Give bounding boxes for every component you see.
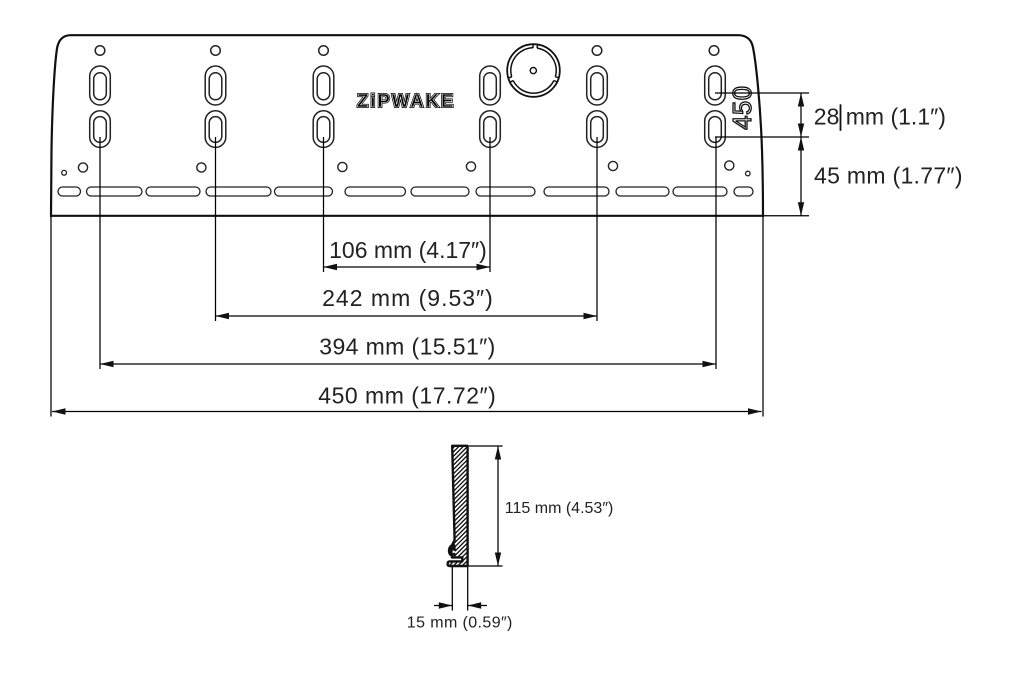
extension line column 4 — [489, 137, 491, 272]
extension line section right — [467, 567, 469, 611]
vent slot 3 — [146, 187, 200, 196]
arrowhead 242 right — [584, 313, 598, 319]
arrowhead 106 left — [324, 264, 338, 270]
dimension line 28/45 mm vertical — [800, 93, 802, 216]
dimension line 115 mm — [497, 446, 499, 566]
vent slot 12 — [734, 187, 753, 196]
lower hole A3 — [338, 162, 347, 171]
mounting slot pair column 4 — [480, 66, 501, 147]
dimension line 15 mm right tail — [468, 605, 487, 607]
vent slot 11 — [673, 187, 727, 196]
vent slot 7 — [411, 187, 469, 196]
pilot hole H6 — [709, 46, 719, 56]
extension line plate right edge — [762, 216, 764, 417]
big circular boss outer circle — [507, 44, 560, 97]
svg-text:106 mm (4.17″): 106 mm (4.17″) — [329, 237, 487, 263]
dimension line 106 mm — [324, 266, 491, 268]
svg-text:15 mm (0.59″): 15 mm (0.59″) — [407, 615, 513, 632]
lower hole A2 — [197, 163, 206, 172]
extension line column 5 — [596, 137, 598, 321]
big circular boss inner broken ring — [508, 44, 559, 93]
dimension line 394 mm — [100, 363, 716, 365]
svg-text:ZiPWAKE: ZiPWAKE — [357, 90, 455, 111]
arrowhead 45 bottom — [798, 202, 804, 216]
dimension line 450 mm — [52, 411, 762, 413]
mounting slot pair column 6 — [705, 66, 726, 147]
leader line bottom slot center — [715, 136, 809, 138]
extension line column 1 — [99, 137, 101, 369]
pilot hole H3 — [319, 46, 329, 56]
bottom vent slot row — [58, 187, 753, 196]
dimension line 15 mm left tail — [434, 605, 452, 607]
leader line plate bottom edge — [763, 215, 809, 217]
vent slot 9 — [544, 187, 609, 196]
svg-text:450: 450 — [729, 85, 757, 129]
arrowhead 15 right — [468, 602, 482, 608]
arrowhead 115 top — [495, 446, 501, 460]
extension line column 6 — [715, 137, 717, 369]
hook blob — [450, 544, 457, 556]
arrowhead 394 left — [100, 361, 114, 367]
pilot hole H2 — [211, 46, 221, 56]
svg-text:242 mm (9.53″): 242 mm (9.53″) — [322, 285, 494, 311]
pilot hole H1 — [95, 46, 105, 56]
arrowhead 450 right — [748, 408, 762, 414]
extension line section top — [469, 445, 503, 447]
arrowhead 106 right — [477, 264, 491, 270]
lower hole A4 — [466, 162, 475, 171]
extension line section left — [451, 567, 453, 611]
vent slot 4 — [206, 187, 271, 196]
extension line column 2 — [215, 137, 217, 321]
big boss center hole — [530, 68, 536, 74]
arrowhead 242 left — [216, 313, 230, 319]
ZIPWAKE logo — [357, 90, 455, 111]
vent slot 2 — [87, 187, 143, 196]
arrowhead 15 left — [439, 602, 453, 608]
mounting slot pair column 1 — [90, 66, 111, 147]
dimension line 242 mm — [216, 315, 598, 317]
text cursor artifact — [840, 104, 842, 131]
vent slot 6 — [345, 187, 406, 196]
plate outline — [51, 35, 763, 216]
tiny dot right — [746, 171, 751, 176]
arrowhead 394 right — [703, 361, 717, 367]
tiny dot left — [62, 170, 67, 175]
arrowhead 45 top — [798, 137, 804, 151]
lower hole A1 — [78, 163, 87, 172]
cross-section hatched body — [448, 446, 468, 566]
svg-text:28 mm (1.1″): 28 mm (1.1″) — [814, 104, 946, 130]
vent slot 8 — [476, 187, 535, 196]
svg-text:115 mm (4.53″): 115 mm (4.53″) — [505, 500, 614, 517]
svg-text:394 mm (15.51″): 394 mm (15.51″) — [319, 333, 496, 359]
vent slot 5 — [275, 187, 333, 196]
mounting slot pair column 3 — [313, 66, 334, 147]
extension line column 3 — [323, 137, 325, 272]
pilot hole H5 — [592, 46, 602, 56]
extension line plate left edge — [50, 216, 52, 417]
svg-text:450 mm (17.72″): 450 mm (17.72″) — [318, 382, 496, 408]
vent slot 10 — [616, 187, 669, 196]
mounting slot pair column 5 — [587, 66, 608, 147]
mounting slot pair column 2 — [205, 66, 226, 147]
arrowhead 115 bottom — [495, 553, 501, 567]
leader line top slot center — [715, 92, 809, 94]
lower hole A6 — [725, 161, 734, 170]
white notch wedge — [453, 550, 456, 553]
vent slot 1 — [58, 187, 81, 196]
arrowhead 28 bottom — [798, 124, 804, 138]
arrowhead 28 top — [798, 93, 804, 107]
arrowhead 450 left — [52, 408, 66, 414]
extension line section bottom — [468, 565, 503, 567]
lower hole A5 — [608, 161, 617, 170]
svg-text:45 mm (1.77″): 45 mm (1.77″) — [814, 163, 963, 189]
